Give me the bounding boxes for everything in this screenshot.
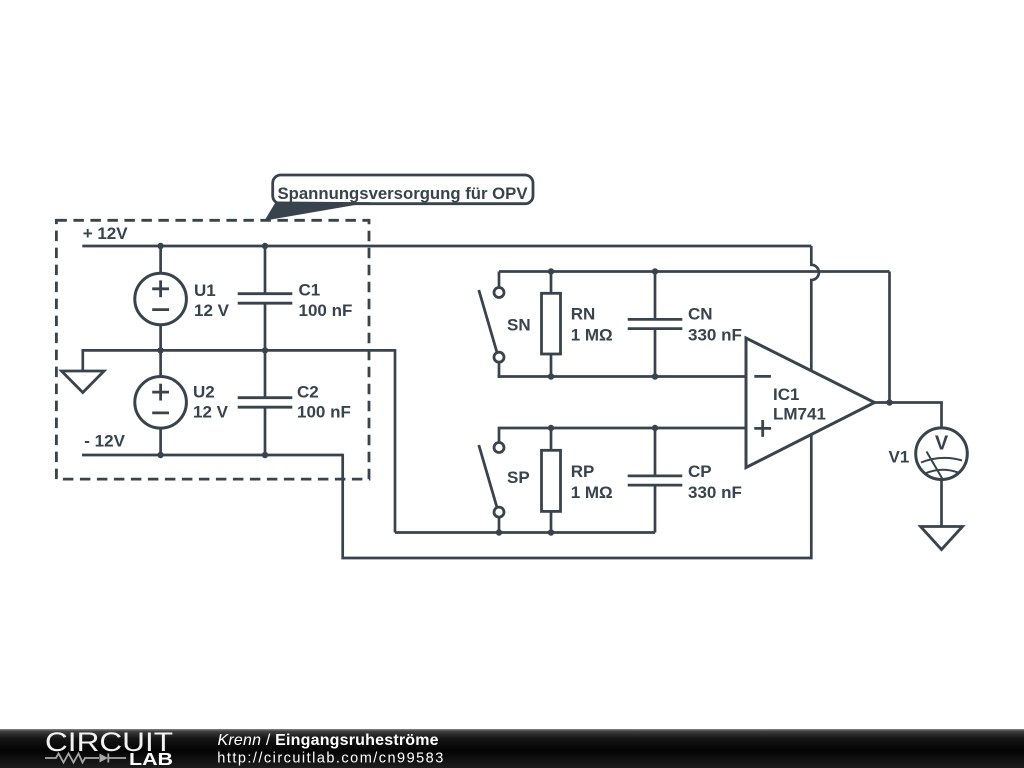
wire SP bottom stub xyxy=(498,517,501,532)
voltage source U1 xyxy=(135,273,187,325)
wire C2 top stub xyxy=(264,350,267,397)
svg-text:100 nF: 100 nF xyxy=(297,402,351,421)
callout box "Spannungsversorgung für OPV" xyxy=(273,175,533,204)
resistor RN xyxy=(542,293,561,354)
capacitor C1 xyxy=(238,294,293,304)
voltmeter V1 xyxy=(916,428,968,480)
callout tail xyxy=(265,202,372,221)
wire output top rail xyxy=(499,270,890,273)
svg-text:SN: SN xyxy=(507,316,531,335)
ground voltmeter xyxy=(921,527,963,550)
wire SN bottom stub xyxy=(498,362,501,378)
voltage source U2 xyxy=(135,377,187,429)
wire feedback drop to output xyxy=(888,272,891,403)
wire voltmeter to ground xyxy=(940,480,943,527)
svg-text:SP: SP xyxy=(507,468,530,487)
svg-text:C1: C1 xyxy=(299,281,321,300)
svg-text:1 MΩ: 1 MΩ xyxy=(571,483,613,502)
svg-text:330 nF: 330 nF xyxy=(688,483,742,502)
switch SP xyxy=(479,443,504,518)
svg-text:RP: RP xyxy=(571,462,595,481)
wire CP top stub xyxy=(654,428,657,476)
svg-text:LM741: LM741 xyxy=(773,404,826,423)
svg-text:C2: C2 xyxy=(297,383,319,402)
svg-text:V1: V1 xyxy=(889,448,910,467)
wire CN bottom stub xyxy=(654,329,657,377)
svg-text:IC1: IC1 xyxy=(773,385,799,404)
wire inverting input rail xyxy=(498,375,746,378)
svg-text:12 V: 12 V xyxy=(194,301,230,320)
wire SP top stub xyxy=(498,428,501,443)
wire CP bottom stub xyxy=(654,485,657,532)
wire C1 bottom stub xyxy=(264,303,267,351)
wire U2 bottom stub xyxy=(159,428,162,455)
svg-text:100 nF: 100 nF xyxy=(299,301,353,320)
wire C2 bottom stub xyxy=(264,407,267,455)
svg-text:Spannungsversorgung für OPV: Spannungsversorgung für OPV xyxy=(278,184,529,203)
wire -12V bottom rail xyxy=(82,454,343,457)
svg-text:CN: CN xyxy=(688,305,713,324)
svg-text:12 V: 12 V xyxy=(193,402,229,421)
footer logo squiggle resistor and diode xyxy=(45,754,126,763)
wire ground stub power box xyxy=(81,349,84,371)
svg-text:U1: U1 xyxy=(194,281,216,300)
svg-text:- 12V: - 12V xyxy=(84,432,125,451)
ground power box xyxy=(62,371,105,393)
power supply dashed box xyxy=(56,220,369,479)
wire SN top stub xyxy=(498,272,501,288)
svg-text:CP: CP xyxy=(688,462,712,481)
svg-text:http://circuitlab.com/cn99583: http://circuitlab.com/cn99583 xyxy=(217,751,443,767)
wire non-inverting input rail xyxy=(498,427,746,430)
op-amp IC1 triangle xyxy=(746,338,875,468)
resistor RP xyxy=(542,450,561,511)
wire RP top stub xyxy=(550,428,553,451)
svg-text:V: V xyxy=(935,432,949,454)
wire mid vertical to ground rail xyxy=(394,349,397,532)
svg-text:330 nF: 330 nF xyxy=(688,325,742,344)
footer bar xyxy=(0,729,1024,768)
capacitor CP xyxy=(628,476,683,485)
capacitor CN xyxy=(628,319,683,328)
wire U1 bottom stub xyxy=(159,325,162,351)
wire RN bottom stub xyxy=(550,354,553,377)
switch SN xyxy=(479,288,504,363)
op-amp minus symbol xyxy=(754,375,771,378)
wire V+ supply drop with hop xyxy=(811,246,819,371)
op-amp plus symbol xyxy=(754,420,771,437)
capacitor C2 xyxy=(238,398,293,408)
junction node dots xyxy=(157,243,892,536)
wire RN top stub xyxy=(550,272,553,295)
svg-text:LAB: LAB xyxy=(129,749,173,768)
svg-text:U2: U2 xyxy=(193,383,215,402)
wire op-amp output to voltmeter xyxy=(875,403,942,429)
wire +12V top rail xyxy=(82,245,811,248)
wire U2 top stub xyxy=(159,350,162,377)
wire U1 top stub xyxy=(159,246,162,274)
wire RP bottom stub xyxy=(550,511,553,532)
svg-text:Krenn / Eingangsruheströme: Krenn / Eingangsruheströme xyxy=(218,732,439,749)
svg-text:+ 12V: + 12V xyxy=(83,224,129,243)
wire C1 top stub xyxy=(264,246,267,294)
wire ground rail P section xyxy=(395,531,655,534)
wire -12V drop xyxy=(343,435,812,559)
svg-text:RN: RN xyxy=(571,305,596,324)
wire CN top stub xyxy=(654,272,657,320)
svg-text:1 MΩ: 1 MΩ xyxy=(571,325,613,344)
wire middle 0V rail xyxy=(83,349,395,352)
